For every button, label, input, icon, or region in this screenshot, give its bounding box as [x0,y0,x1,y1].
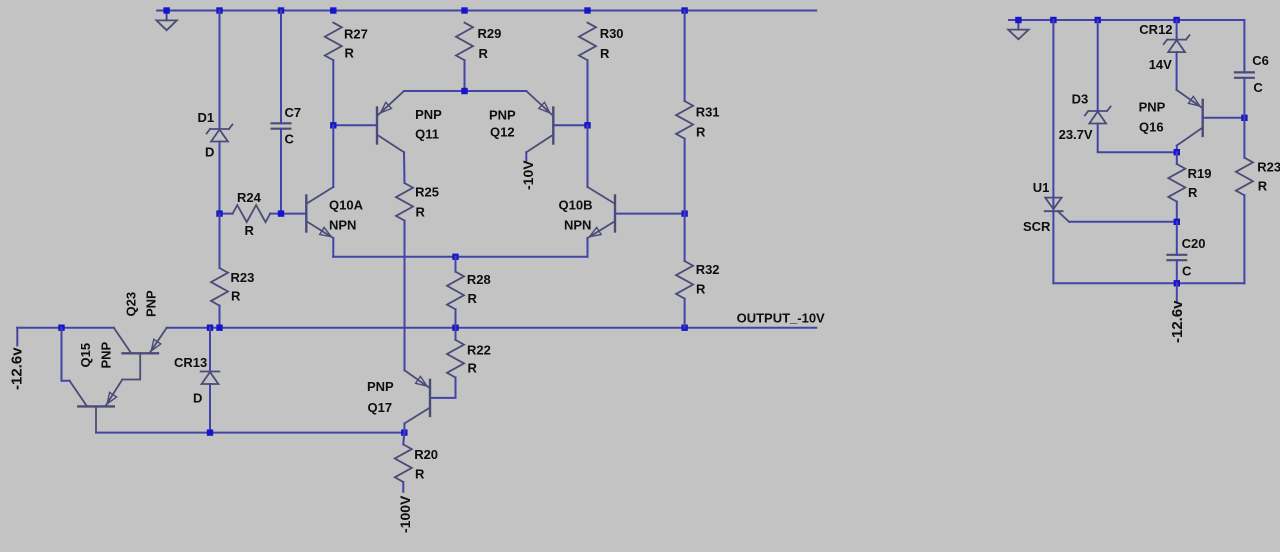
svg-text:D: D [205,145,214,160]
junction rail-D1 [216,7,222,13]
wire R24 node to R23 [219,214,221,268]
pnp transistor Q17 [405,370,431,423]
ground (right) [1008,20,1028,39]
junction rail2-D3 [1095,17,1101,23]
wire R30 to Q12 base node [587,60,589,125]
svg-text:C6: C6 [1252,53,1269,68]
wire R27 node to Q10A collector [332,125,334,187]
wire R23 to bottom corner [1243,195,1245,283]
wire right bottom line [1053,282,1244,284]
svg-text:SCR: SCR [1023,219,1051,234]
svg-text:R31: R31 [696,104,720,119]
pnp transistor Q16 [1177,90,1203,146]
svg-text:23.7V: 23.7V [1059,127,1093,142]
junction R24 right [278,210,284,216]
svg-text:R: R [415,467,425,482]
junction rail2-ground [1015,17,1021,23]
wire Q11/Q12 emitter line [404,90,526,92]
svg-text:Q17: Q17 [368,400,393,415]
svg-text:Q10B: Q10B [559,198,593,213]
svg-text:R20: R20 [414,447,438,462]
svg-text:R: R [479,46,489,61]
junction rail-R30 [584,7,590,13]
svg-text:R22: R22 [467,343,491,358]
junction Q12 base [584,122,590,128]
wire rail to D3 [1097,20,1099,111]
junction bottom-C20 [1174,280,1180,286]
wire Q11 collector to R25 [403,152,406,183]
npn transistor Q10A [306,187,333,238]
svg-text:R: R [231,289,241,304]
svg-text:R: R [468,361,478,376]
svg-text:C20: C20 [1182,236,1206,251]
svg-text:Q16: Q16 [1139,120,1164,135]
svg-text:R27: R27 [344,26,368,41]
resistor R28 [447,272,464,310]
wire rail to CR12 [1176,20,1178,40]
junction rail2-CR12 [1173,17,1179,23]
wire C6 to base node [1243,78,1245,118]
svg-text:C: C [1253,80,1263,95]
svg-text:NPN: NPN [329,218,356,233]
junction Q11 base [330,122,336,128]
wire collector node to R19 [1176,152,1178,164]
svg-text:Q10A: Q10A [329,198,364,213]
wire base node to R23 [1243,118,1245,158]
junction emitter line R28 [452,254,458,260]
svg-text:-100V: -100V [397,495,413,533]
svg-text:R: R [468,291,478,306]
junction output-R23 [216,325,222,331]
diode CR13 [201,371,220,373]
svg-text:U1: U1 [1033,180,1050,195]
wire Q10B emitter down [587,238,589,257]
svg-text:CR12: CR12 [1139,22,1172,37]
wire output line left segment [17,327,114,329]
resistor R23 [211,268,228,306]
svg-text:NPN: NPN [564,218,591,233]
pnp transistor Q23 (rotated) [114,328,167,380]
wire -12.6v flag stub [16,328,18,346]
svg-text:R: R [345,46,355,61]
svg-text:Q11: Q11 [415,127,439,142]
resistor R22 [447,340,464,378]
junction R24 left [216,210,222,216]
wire Q12 collector stub to -10V flag [525,152,527,160]
resistor R19 [1168,164,1185,202]
junction output-R28-R22 [452,325,458,331]
svg-text:R19: R19 [1188,166,1212,181]
pnp transistor Q12 [526,91,553,152]
zener diode D1 [210,128,229,130]
wire CR13 top [209,328,211,372]
junction R19-gate-C20 [1174,219,1180,225]
wire Q16 base [1203,117,1245,119]
svg-text:C: C [1182,264,1192,279]
svg-text:R25: R25 [415,184,439,199]
svg-text:14V: 14V [1149,57,1172,72]
wire D1 to node R24 [219,142,221,214]
wire CR12 to Q16 emitter [1176,52,1178,90]
junction Q16 collector-D3-R19 [1174,149,1180,155]
junction emitters-R29 [461,88,467,94]
wire gate node to C20 [1176,222,1178,255]
wire R25 to Q17 emitter [404,221,406,371]
svg-text:R29: R29 [478,26,502,41]
pnp transistor Q15 (rotated) [70,380,123,433]
svg-text:R: R [600,46,610,61]
wire bottom line [96,432,404,434]
svg-text:PNP: PNP [99,341,114,368]
wire -12.6v flag stub (right) [1176,283,1178,301]
junction output-CR13 [207,325,213,331]
pnp transistor Q11 [377,91,404,152]
junction bottom-Q17-R20 [401,429,407,435]
wire Q16 collector stub [1176,146,1178,153]
wire Q12 base [553,124,587,126]
svg-text:-12.6v: -12.6v [1169,300,1186,343]
wire R28 to output [455,309,457,327]
wire rail to D1 [219,11,221,130]
scr U1 [1045,20,1069,283]
junction Q10B base R31/R32 node [681,210,687,216]
capacitor C20 [1166,254,1187,256]
junction rail-R29 [461,7,467,13]
resistor R25 [396,183,413,221]
resistor R32 [676,261,693,299]
junction rail-R31 [681,7,687,13]
wire R32 to output [684,299,686,328]
resistor R27 [325,23,342,61]
svg-text:R: R [1258,179,1268,194]
wire base node to R32 [684,214,686,261]
wire: right top rail [1009,20,1244,72]
junction output-R32 [681,325,687,331]
wire Q10B base [615,213,685,215]
wire Q11 base [333,124,377,126]
wire shared emitter line Q10A-Q10B [333,256,587,258]
wire R19 to gate node [1176,202,1178,222]
junction rail-C7 [278,7,284,13]
junction rail2-U1 [1050,17,1056,23]
wire rail to C7 [280,11,282,124]
svg-text:D: D [193,391,202,406]
wire R20 to -100V flag [402,482,404,492]
wire R22 to Q17 base [430,378,456,398]
svg-text:OUTPUT_-10V: OUTPUT_-10V [737,311,825,326]
wire rail to R31 [684,11,686,102]
svg-text:R: R [696,282,706,297]
wire output line main segment [167,327,817,329]
svg-text:Q23: Q23 [124,292,139,317]
ground [156,11,176,31]
svg-text:PNP: PNP [367,379,394,394]
svg-text:R28: R28 [467,272,491,287]
wire C20 to bottom line [1176,260,1178,283]
wire R27 to Q11 base node [332,60,334,125]
wire Q17 collector to bottom node [403,423,405,432]
wire CR13 bottom [209,384,211,433]
wire Q10A base [281,213,306,215]
svg-text:D3: D3 [1072,92,1089,107]
svg-text:D1: D1 [198,110,215,125]
svg-text:R23: R23 [231,270,255,285]
svg-text:R: R [245,223,255,238]
svg-text:CR13: CR13 [174,355,207,370]
junction rail-R27 [330,7,336,13]
resistor R29 [456,23,473,61]
svg-text:R: R [696,124,706,139]
svg-text:-12.6v: -12.6v [9,347,26,390]
wire: top power rail [157,10,816,12]
svg-text:R23: R23 [1257,160,1280,175]
svg-text:PNP: PNP [415,107,442,122]
zener diode D3 [1088,110,1107,112]
svg-text:R32: R32 [696,262,720,277]
svg-text:C: C [285,132,295,147]
wire U1 gate to R19 node [1069,221,1177,223]
svg-text:PNP: PNP [1139,100,1166,115]
wire R31 to base node [684,139,686,214]
svg-text:Q15: Q15 [78,343,93,368]
capacitor C7 [271,122,292,124]
resistor R31 [676,101,693,139]
wire output to R22 [455,328,457,340]
wire R30 node to Q10B collector [587,125,589,187]
wire D3 to Q16 collector node [1098,124,1177,153]
svg-text:R: R [416,204,426,219]
svg-text:PNP: PNP [144,290,159,317]
zener diode CR12 [1167,39,1186,41]
wire Q10A emitter down [332,238,334,257]
resistor R30 [579,23,596,61]
junction Q16 base-C6 [1241,115,1247,121]
wire emitter node to R28 [455,257,457,272]
wire C7 to node R24 [280,129,282,214]
wire bottom node to R20 [403,433,404,445]
junction bottom-CR13 [207,429,213,435]
wire Q15 collector jog [62,328,70,381]
svg-text:R24: R24 [237,190,262,205]
svg-text:Q12: Q12 [490,125,515,140]
resistor R23 (right) [1236,158,1253,196]
resistor R20 [395,444,412,482]
wire R29 to emitter node [464,60,466,91]
npn transistor Q10B [588,187,616,238]
wire R23 to output line [219,306,221,328]
svg-text:PNP: PNP [489,108,516,123]
svg-text:R30: R30 [600,26,624,41]
junction rail-ground [163,7,169,13]
capacitor C6 [1234,71,1255,73]
svg-text:C7: C7 [285,105,302,120]
junction output-Q15 collector [58,325,64,331]
svg-text:R: R [1188,185,1198,200]
svg-text:-10V: -10V [520,160,536,190]
resistor R24 (horizontal) [220,205,282,222]
